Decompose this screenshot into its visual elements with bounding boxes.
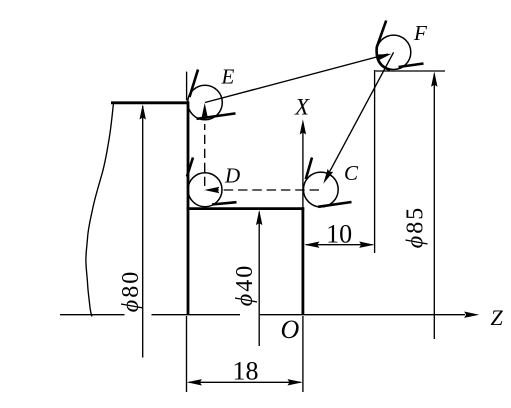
tool path E to F (feed) xyxy=(205,54,388,103)
tool nose circle E xyxy=(188,85,223,120)
part outline: top surface of φ80 cylinder xyxy=(111,101,188,104)
svg-text:Z: Z xyxy=(491,305,504,330)
svg-text:F: F xyxy=(413,21,427,45)
dimension 10: dimension line with outward arrows xyxy=(304,242,374,248)
dimension 18: dimension line with outward arrows xyxy=(187,379,303,385)
svg-text:E: E xyxy=(221,65,235,89)
extension line below left face for 18 dim xyxy=(186,316,188,392)
tool nose circle C xyxy=(303,172,338,207)
extension line below right face for 18 dim xyxy=(302,316,304,392)
svg-text:ϕ40: ϕ40 xyxy=(232,264,258,306)
svg-text:ϕ80: ϕ80 xyxy=(118,270,144,312)
svg-text:C: C xyxy=(344,161,359,185)
tool path D to E (rapid, dashed) xyxy=(204,124,206,186)
svg-text:ϕ85: ϕ85 xyxy=(402,206,428,248)
tool edge at D (steep) xyxy=(187,158,193,177)
tool edge at C (steep) xyxy=(306,158,312,180)
tool path C to D (rapid, dashed) xyxy=(214,189,319,191)
X axis xyxy=(300,119,306,208)
arrowhead at F xyxy=(376,54,392,61)
break (wavy) line xyxy=(86,103,114,317)
tool edge at D (bottom tangent) xyxy=(212,202,237,204)
Z axis xyxy=(60,312,479,318)
tool edge at F (steep with hook) xyxy=(377,21,390,70)
thin flank line above E xyxy=(186,72,188,101)
tool path F to C (feed) xyxy=(325,52,394,180)
tool nose circle F xyxy=(376,35,410,69)
svg-text:D: D xyxy=(224,163,240,187)
tool edge at C (bottom tangent) xyxy=(318,202,352,207)
tool edge at F (bottom tangent) xyxy=(399,64,424,68)
svg-text:O: O xyxy=(281,315,300,344)
dimension φ85: dimension line, arrow up at top xyxy=(431,72,437,340)
dimension φ80: dimension line, arrow up at top xyxy=(140,104,146,357)
part outline: right end face xyxy=(301,207,304,315)
part outline: left end face xyxy=(187,101,190,314)
dimension φ40: dimension line, arrow up at top xyxy=(256,210,262,346)
arrowhead at D xyxy=(204,187,219,193)
extension line from F down to 10 dim xyxy=(374,70,376,253)
tool nose circle D xyxy=(188,173,222,207)
part outline: shoulder / top of φ40 cylinder xyxy=(187,207,305,210)
arrowhead at C xyxy=(323,169,333,184)
extension line for φ85 at top of F xyxy=(375,70,445,72)
svg-text:18: 18 xyxy=(233,357,259,386)
tool edge at E (bottom tangent) xyxy=(197,113,236,119)
svg-text:10: 10 xyxy=(326,220,352,249)
svg-text:X: X xyxy=(294,94,310,119)
tool edge at E (steep) xyxy=(190,70,199,98)
arrowhead at E xyxy=(202,103,208,118)
